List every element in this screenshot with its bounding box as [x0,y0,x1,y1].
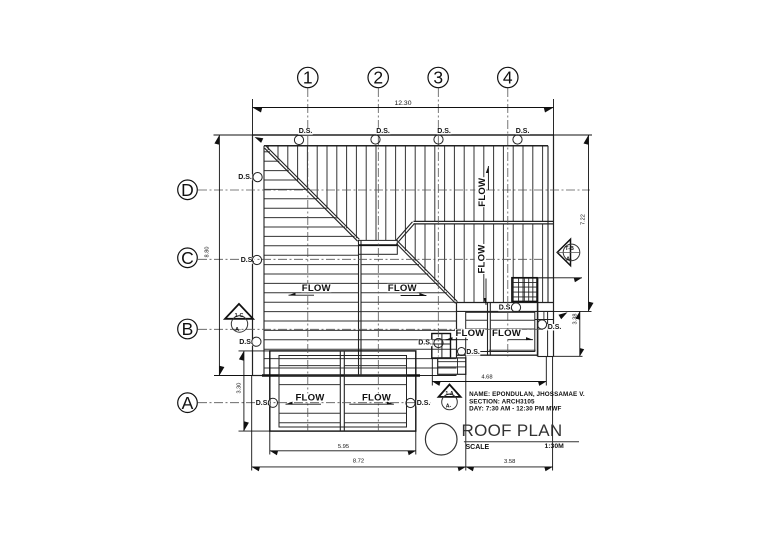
svg-text:3: 3 [433,68,443,88]
svg-text:SECTION: ARCH3105: SECTION: ARCH3105 [469,398,535,405]
svg-text:A-: A- [235,327,241,333]
svg-text:1-A: 1-A [445,391,454,397]
svg-text:FLOW: FLOW [492,328,522,339]
svg-text:D.S.: D.S. [548,324,562,331]
svg-text:D.S.: D.S. [418,340,432,347]
svg-text:D.S.: D.S. [466,349,480,356]
svg-text:D.S.: D.S. [516,128,530,135]
svg-text:1-C: 1-C [235,313,244,319]
svg-text:1: 1 [303,68,313,88]
svg-text:D.S.: D.S. [238,174,252,181]
svg-text:FLOW: FLOW [455,328,485,339]
svg-text:A-: A- [446,404,452,410]
svg-text:4.68: 4.68 [481,374,492,380]
svg-text:2: 2 [373,68,383,88]
svg-text:12.30: 12.30 [394,100,411,107]
svg-text:D.S.: D.S. [299,128,313,135]
svg-text:3.38: 3.38 [572,314,578,325]
svg-text:D.S.: D.S. [256,400,270,407]
svg-text:T-B: T-B [565,246,574,252]
svg-text:D.S.: D.S. [437,128,451,135]
svg-text:D.S.: D.S. [376,128,390,135]
svg-text:8.80: 8.80 [205,247,211,258]
svg-text:5.95: 5.95 [338,444,349,450]
svg-text:DAY: 7:30 AM - 12:30 PM MWF: DAY: 7:30 AM - 12:30 PM MWF [469,406,561,413]
svg-text:FLOW: FLOW [295,392,325,403]
svg-text:FLOW: FLOW [302,283,332,294]
svg-text:NAME: EPONDULAN, JHOSSAMAE V.: NAME: EPONDULAN, JHOSSAMAE V. [469,391,585,398]
svg-text:D.S.: D.S. [417,400,431,407]
svg-text:FLOW: FLOW [477,177,488,207]
svg-text:FLOW: FLOW [476,244,487,274]
svg-text:C: C [181,248,194,268]
svg-text:D.S.: D.S. [499,305,513,312]
svg-text:D: D [181,180,194,200]
svg-text:B: B [182,319,194,339]
svg-text:SCALE: SCALE [466,444,490,451]
svg-text:A-: A- [566,257,572,263]
svg-text:A: A [182,393,194,413]
svg-text:8.72: 8.72 [353,458,364,464]
svg-text:ROOF PLAN: ROOF PLAN [462,421,563,440]
svg-text:FLOW: FLOW [388,283,418,294]
svg-text:3.30: 3.30 [237,383,243,394]
svg-text:3.58: 3.58 [504,459,515,465]
svg-text:4: 4 [503,68,513,88]
svg-text:D.S.: D.S. [239,339,253,346]
svg-text:7.22: 7.22 [580,214,586,225]
svg-text:1:30M: 1:30M [545,443,565,450]
